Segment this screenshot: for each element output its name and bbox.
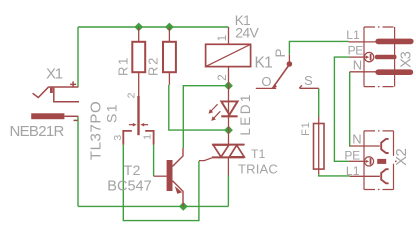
junction node top rail R1 [134,23,143,32]
svg-text:LED1: LED1 [238,92,253,135]
fuse F1 [318,117,320,175]
svg-text:X1: X1 [46,65,63,82]
switch S1 contact pin 3 [123,131,132,145]
X3 pin L1 [348,41,377,43]
connector X1 sleeve bar [31,113,64,119]
LED1 emission arrows [211,104,218,111]
svg-text:1: 1 [217,35,229,41]
svg-text:NEB21R: NEB21R [10,123,65,140]
connector X3 box [364,27,395,87]
svg-text:S1: S1 [103,103,119,123]
X2 pin PE [349,160,365,162]
X2 pin N [350,145,380,147]
svg-text:R1: R1 [115,56,130,76]
svg-text:T1: T1 [251,147,266,161]
wire bottom rail [78,205,228,207]
junction node LED cathode [224,126,233,135]
relay coil K1 [206,44,251,66]
wire S1 pin1 to base [153,145,155,176]
switch S1 contact pin 1 [145,131,153,145]
svg-text:N: N [352,131,361,146]
svg-text:1: 1 [142,134,154,140]
wire fuse bottom to X2 L1 [319,174,350,176]
svg-text:PE: PE [348,44,364,58]
transistor T2 BC547 [167,160,173,191]
svg-text:TL37PO: TL37PO [88,101,105,160]
wire PE net X3 to X2 [334,57,349,161]
resistor R2 [163,42,176,72]
X2 pin L1 [350,175,380,177]
switch S1 pole [137,96,139,135]
wire top rail [78,26,229,28]
svg-text:X3: X3 [399,51,415,68]
X3 pin PE [349,56,364,58]
wire R2 bottom to LED cathode node [169,85,229,130]
connector X1 jack tip contact [33,87,49,98]
svg-text:T2: T2 [124,162,141,178]
X3 pin N [350,71,377,73]
wire relay P to X3 L1 [289,41,348,54]
LED1 diode [228,86,230,145]
relay contact K1 [288,55,290,62]
junction node emitter bottom rail [179,202,188,211]
resistor R1 [132,42,145,72]
wire X1 minus drop [77,116,79,206]
svg-text:F1: F1 [300,121,312,135]
svg-text:R2: R2 [145,56,160,76]
svg-text:3: 3 [112,135,124,141]
svg-text:TRIAC: TRIAC [238,162,278,177]
svg-text:L1: L1 [346,164,360,178]
svg-text:2: 2 [217,74,229,80]
wire relay S to fuse [318,88,320,116]
triac T1 [212,144,245,146]
svg-text:X2: X2 [393,148,410,165]
svg-text:L1: L1 [346,28,360,42]
wire X1 plus riser [77,27,79,87]
switch S1 arrows [129,124,134,126]
wire TRIAC MT2 riser [227,176,229,207]
svg-text:24V: 24V [235,25,259,41]
connector X1 tip break rect [50,88,53,93]
wire coil bottom node to collector [183,86,228,148]
svg-text:BC547: BC547 [107,179,151,195]
junction node coil bottom [224,81,233,90]
connector X2 box [364,131,397,190]
X1 plus sign [70,81,76,87]
wire N net X3 to X2 [349,72,351,146]
svg-text:2: 2 [125,92,137,98]
svg-text:K1: K1 [255,54,273,71]
wire S1 pin3 to triac gate loop [123,145,199,221]
X1 minus sign [74,119,78,121]
junction node top rail R2 [165,23,174,32]
connector X1 switch contact [54,88,79,102]
svg-text:PE: PE [344,149,360,163]
svg-text:O: O [261,74,271,89]
svg-text:P: P [273,48,288,57]
svg-text:N: N [353,58,362,73]
svg-text:S: S [304,73,313,88]
